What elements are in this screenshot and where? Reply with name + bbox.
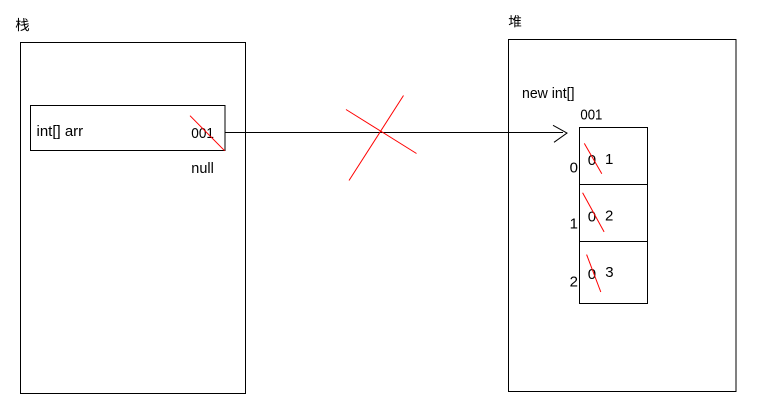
cell 0 red slash [584,143,602,173]
svg-text:0: 0 [588,209,596,226]
cell 1 red slash [583,193,605,232]
svg-text:new int[]: new int[] [522,85,575,102]
array box [580,128,648,304]
svg-text:2: 2 [570,274,578,291]
heap label 堆 [509,15,521,27]
variable box [31,106,226,151]
svg-text:1: 1 [605,151,613,168]
red X cross mark line 1 [349,96,404,181]
svg-text:3: 3 [605,264,613,281]
svg-text:2: 2 [605,208,613,225]
svg-text:int[] arr: int[] arr [37,123,84,140]
red X cross mark line 2 [346,110,417,154]
reference arrow line from variable box to heap array [225,132,563,134]
cell 2 red slash [587,255,601,292]
heap frame rectangle [509,40,737,392]
svg-text:null: null [191,160,214,177]
red strikethrough over 001 [190,116,225,151]
array cell divider 1 [580,184,648,186]
svg-text:0: 0 [588,152,596,169]
array cell divider 2 [580,241,648,243]
stack frame rectangle [21,43,246,394]
svg-text:001: 001 [580,107,602,124]
svg-text:001: 001 [191,125,214,142]
svg-text:0: 0 [570,160,578,177]
arrowhead [553,125,567,142]
svg-text:1: 1 [570,216,578,233]
stack label 栈 [16,18,29,31]
